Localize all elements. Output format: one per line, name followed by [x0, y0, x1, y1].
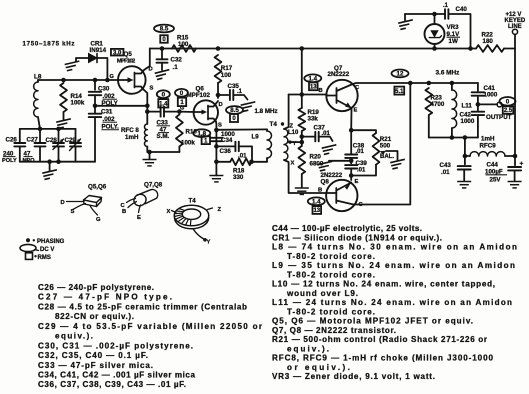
capacitor C42 — [472, 111, 485, 113]
svg-text:C44 — 100-µF electrolytic, 25: C44 — 100-µF electrolytic, 25 volts. — [272, 224, 422, 233]
svg-text:822-CN or equiv.).: 822-CN or equiv.). — [55, 312, 134, 321]
svg-text:.01: .01 — [322, 131, 331, 137]
node junction RFC9 riser — [463, 135, 468, 140]
svg-text:0: 0 — [162, 91, 166, 98]
svg-text:C34, C41, C42 — .001 µF silver: C34, C41, C42 — .001 µF silver mica — [38, 370, 195, 379]
RMS box 1 at Q6 gate — [178, 98, 186, 106]
svg-text:E: E — [137, 215, 141, 221]
svg-text:C29: C29 — [65, 137, 77, 144]
svg-text:180: 180 — [483, 38, 494, 45]
svg-text:C33 — 47-pF silver mica.: C33 — 47-pF silver mica. — [38, 361, 153, 370]
svg-text:C36, C37, C38, C39, C43 — .01: C36, C37, C38, C39, C43 — .01 µF. — [38, 380, 186, 389]
wire to L9 top — [216, 128, 267, 130]
svg-text:8.5: 8.5 — [160, 26, 169, 33]
wire to R21 top — [351, 130, 376, 133]
svg-text:3.0: 3.0 — [113, 50, 122, 56]
svg-text:C40: C40 — [456, 6, 468, 13]
svg-text:C39: C39 — [356, 160, 368, 167]
svg-text:L11 — 24 turns No. 24 enam. wi: L11 — 24 turns No. 24 enam. wire on an A… — [272, 298, 512, 307]
node junction R14 top — [61, 78, 66, 83]
svg-text:wound over L9.: wound over L9. — [286, 289, 358, 298]
resistor R14 — [60, 83, 67, 112]
RMS box 1.4 at Q5 source — [158, 99, 168, 107]
svg-text:BAL.: BAL. — [380, 154, 394, 160]
ground below C32 — [155, 70, 171, 80]
svg-text:E: E — [355, 179, 359, 185]
RMS box 3.0 at Q5 gate — [111, 49, 124, 56]
svg-text:B: B — [318, 188, 322, 194]
node junction RFC9 / C43 — [463, 154, 468, 159]
svg-text:C28: C28 — [46, 137, 58, 144]
wire L10 bottom (X) to Q8 base — [284, 160, 326, 193]
node junction output tap — [476, 102, 481, 107]
JFET Q5 — [118, 66, 146, 94]
wire output tap to terminal — [478, 103, 497, 105]
wire Q8 collector to output bus riser — [354, 83, 411, 205]
svg-text:0: 0 — [506, 98, 510, 105]
svg-text:1.4: 1.4 — [308, 75, 317, 82]
capacitor C41 — [477, 83, 479, 91]
svg-text:POLY: POLY — [2, 158, 17, 164]
node junction source / C33 / RFC8 — [145, 109, 150, 114]
node junction C28 bottom rail — [56, 159, 61, 164]
svg-text:C31: C31 — [101, 109, 113, 116]
wire Q7 emitter down — [350, 108, 352, 130]
svg-text:IN914: IN914 — [90, 47, 107, 54]
svg-text:100: 100 — [221, 72, 232, 79]
legend: oval = DC volts — [20, 244, 36, 251]
oval 8.5 DC at Q6 drain — [226, 106, 243, 114]
svg-text:L10: L10 — [288, 130, 299, 136]
svg-text:T4: T4 — [270, 121, 278, 128]
node junction L11 top — [450, 81, 455, 86]
node junction R18 right / L9 bottom — [249, 160, 254, 165]
svg-text:1.8 MHz: 1.8 MHz — [255, 108, 278, 115]
svg-text:500: 500 — [380, 142, 391, 149]
oval 8.5 DC volts at rail — [154, 25, 174, 33]
svg-text:VR3 — Zener diode, 9.1 volt, 1: VR3 — Zener diode, 9.1 volt, 1 watt. — [272, 372, 435, 381]
ground below R20 — [295, 188, 309, 194]
node junction C40 right at rail — [468, 46, 473, 51]
svg-text:1750–1875 kHz: 1750–1875 kHz — [23, 41, 75, 48]
svg-text:1W: 1W — [449, 38, 458, 45]
capacitor C32 — [157, 58, 168, 60]
zener diode VR3 — [434, 14, 436, 24]
ground below RFC8 — [143, 160, 157, 166]
node junction C28 at top rail — [56, 127, 61, 132]
svg-text:Q5: Q5 — [124, 51, 133, 58]
node junction Y tap — [300, 140, 305, 145]
svg-text:C30, C31 — .002-µF polystyrene: C30, C31 — .002-µF polystyrene. — [38, 341, 193, 350]
node junction base wire crossing — [300, 92, 305, 97]
capacitor C35 — [218, 94, 229, 96]
legend: square = RMS volts — [26, 253, 33, 260]
node junction Q8 riser — [408, 81, 413, 86]
svg-text:C32: C32 — [171, 57, 183, 64]
svg-text:G: G — [96, 217, 101, 223]
svg-text:Z: Z — [218, 207, 222, 213]
RMS box 5.1 at collector bus — [394, 87, 404, 95]
capacitor C26 — [19, 129, 21, 143]
svg-text:equiv.).: equiv.). — [287, 344, 329, 353]
svg-text:33k: 33k — [308, 115, 319, 122]
wire bank ground riser — [49, 162, 51, 171]
svg-text:VR3: VR3 — [447, 24, 460, 31]
inductor L8 — [37, 80, 39, 82]
node junction Q8 emitter — [349, 173, 354, 178]
wire C33 to Q6 gate — [179, 111, 194, 113]
RMS box 13 at Q7 base — [309, 82, 318, 90]
wire Y tap to divider — [289, 141, 302, 143]
wire CR1 cathode to gate node — [97, 58, 107, 80]
transistor Q7 — [326, 80, 357, 111]
RMS box 13 at Q8 base — [313, 206, 322, 214]
node junction R16 top — [177, 109, 182, 114]
node junction C30 top — [93, 78, 98, 83]
ground below C43 — [457, 182, 471, 188]
resistor R20 — [298, 146, 305, 174]
wire tuning bank top rail — [20, 128, 76, 130]
oval 1.4 DC at Q8 base — [308, 197, 325, 205]
svg-text:C26 — 240-pF polystyrene.: C26 — 240-pF polystyrene. — [38, 283, 154, 292]
svg-text:1mH: 1mH — [125, 134, 139, 141]
svg-text:D: D — [219, 102, 223, 108]
node junction at rail — [300, 46, 305, 51]
svg-text:330: 330 — [233, 174, 244, 181]
+12V terminal — [512, 29, 517, 34]
svg-text:RMS: RMS — [38, 255, 51, 261]
node junction C36 tap — [214, 144, 219, 149]
resistor R17 — [215, 55, 222, 83]
wire R14 to ground — [63, 112, 65, 120]
wire C31 to bottom rail — [94, 117, 96, 162]
RMS box 2.5 at output — [503, 106, 514, 114]
wire L10 top (Z) to Q7 base line — [284, 95, 289, 130]
svg-text:CR1 — Silicon diode (1N914 or: CR1 — Silicon diode (1N914 or equiv.). — [272, 233, 442, 242]
svg-text:C27: C27 — [27, 137, 39, 144]
svg-text:Y: Y — [207, 240, 211, 246]
node junction R17 top — [216, 46, 221, 51]
svg-text:NPO: NPO — [23, 158, 36, 164]
svg-text:25V: 25V — [490, 176, 502, 183]
svg-text:Q5,Q6: Q5,Q6 — [88, 184, 107, 191]
resistor R18 — [216, 161, 230, 163]
svg-text:13: 13 — [313, 208, 320, 214]
svg-text:DC V: DC V — [40, 247, 54, 253]
ground below R14 — [56, 119, 72, 129]
node junction C32 — [160, 46, 165, 51]
svg-text:X: X — [291, 161, 295, 167]
svg-text:C36: C36 — [220, 148, 232, 155]
capacitor C36 — [216, 145, 235, 147]
wire midpoint to ground — [329, 160, 351, 162]
svg-text:equiv.).: equiv.). — [55, 332, 93, 341]
svg-text:T-80-2 toroid core.: T-80-2 toroid core. — [287, 270, 375, 279]
node junction VR3 bottom at rail — [432, 46, 437, 51]
wire main oscillator node (gate bus) — [38, 79, 118, 81]
svg-text:8.5: 8.5 — [230, 107, 239, 114]
ground left of C40 — [404, 14, 406, 21]
ground below C44 — [508, 182, 522, 188]
capacitor C44 electrolytic — [514, 156, 516, 165]
svg-text:.1: .1 — [237, 89, 243, 95]
oval 0 DC at output — [500, 97, 516, 106]
node junction VR3 top — [432, 12, 437, 17]
svg-text:2N2222: 2N2222 — [328, 71, 350, 78]
capacitor C30 — [94, 80, 96, 90]
wire CR1 branch from ground — [76, 58, 89, 62]
resistor R23 — [425, 88, 432, 115]
output terminal — [497, 102, 502, 107]
svg-text:+: + — [520, 161, 524, 168]
wire R20 to ground — [301, 174, 303, 187]
svg-text:100: 100 — [178, 41, 189, 48]
svg-text:B: B — [319, 88, 323, 94]
node junction L9 top tap — [214, 128, 219, 133]
wire R21 bottom to Q8 emitter — [351, 165, 376, 176]
capacitor C34 series — [210, 137, 222, 139]
svg-text:.1: .1 — [173, 64, 179, 71]
svg-text:C30: C30 — [98, 86, 110, 93]
capacitor C27 — [39, 129, 41, 143]
svg-text:C44: C44 — [487, 161, 499, 168]
wire Q5 source down — [144, 90, 148, 112]
wire Q5 drain to supply rail — [144, 49, 150, 71]
svg-text:C34: C34 — [221, 137, 233, 144]
svg-text:1000: 1000 — [461, 118, 475, 125]
oval 1.8 DC at Q6 source — [193, 129, 210, 137]
oval 1.4 DC at Q7 base — [304, 74, 321, 82]
svg-text:C29 — 4 to 53.5-pF variable (M: C29 — 4 to 53.5-pF variable (Millen 2205… — [38, 322, 263, 331]
svg-text:.01: .01 — [356, 149, 365, 155]
wire +12V line down — [514, 35, 516, 157]
diode CR1 symbol — [89, 54, 98, 63]
svg-text:5.1: 5.1 — [395, 89, 404, 95]
wire C30-C31 midpoint — [94, 95, 96, 113]
svg-text:E: E — [354, 108, 358, 114]
svg-text:12: 12 — [397, 71, 404, 78]
wire R22 to +12V line — [504, 48, 515, 50]
svg-text:Z: Z — [290, 124, 294, 130]
ground below tuning bank — [42, 170, 58, 180]
node junction emitter / R21 top — [349, 128, 354, 133]
svg-text:Q7, Q8 — 2N2222 transistor.: Q7, Q8 — 2N2222 transistor. — [272, 326, 396, 335]
svg-text:1.4: 1.4 — [312, 198, 321, 205]
wire Q7 base — [289, 94, 327, 96]
node junction R18 left — [214, 160, 219, 165]
svg-text:Q7,Q8: Q7,Q8 — [144, 182, 163, 189]
svg-text:X: X — [167, 209, 171, 215]
svg-text:B: B — [122, 209, 126, 215]
capacitor C38 — [345, 154, 357, 156]
wire R17 to Q6 drain — [217, 83, 219, 98]
svg-text:MPF102: MPF102 — [187, 92, 211, 99]
svg-text:OUTPUT: OUTPUT — [486, 114, 512, 121]
resistor R16 — [176, 115, 183, 147]
capacitor C37 — [302, 136, 316, 138]
svg-text:RFC9: RFC9 — [480, 142, 497, 149]
ground at CR1 anode — [65, 61, 81, 71]
wire L8 bottom to tuning-cap rail — [38, 117, 40, 129]
svg-text:C28 — 4.5 to 25-pF ceramic tri: C28 — 4.5 to 25-pF ceramic trimmer (Cent… — [38, 302, 247, 311]
RMS box 0 at Q6 drain — [230, 114, 238, 122]
svg-text:RFC8, RFC9 — 1-mH rf choke (Mi: RFC8, RFC9 — 1-mH rf choke (Millen J300-… — [272, 354, 493, 363]
svg-text:MPF102: MPF102 — [117, 59, 136, 65]
svg-text:13: 13 — [310, 85, 317, 91]
capacitor C33 — [147, 111, 160, 113]
node junction C35 tap — [216, 93, 221, 98]
svg-text:0: 0 — [180, 90, 184, 97]
wire +9V supply rail — [150, 48, 471, 50]
svg-text:R21 — 500-ohm control (Radio S: R21 — 500-ohm control (Radio Shack 271-2… — [272, 335, 488, 344]
node junction R23 top — [427, 81, 432, 86]
ground after C37 — [322, 145, 338, 155]
svg-text:.01: .01 — [357, 167, 366, 173]
svg-text:D: D — [61, 200, 65, 206]
svg-text:.1: .1 — [443, 3, 449, 9]
wire riser to RFC9 node — [464, 138, 466, 157]
capacitor C39 — [345, 164, 357, 166]
svg-text:Q5, Q6 — Motorola MPF102 JFET: Q5, Q6 — Motorola MPF102 JFET or equiv. — [272, 317, 473, 326]
JFET Q6 — [194, 100, 218, 124]
transistor Q8 — [326, 180, 357, 211]
svg-text:C32, C35, C40 — 0.1 µF.: C32, C35, C40 — 0.1 µF. — [38, 351, 148, 360]
svg-text:S.M.: S.M. — [157, 133, 170, 140]
node junction C37 tap — [301, 131, 303, 146]
node junction at +12V line — [513, 154, 518, 159]
ground after C35 — [241, 102, 257, 112]
wire Q6 drain up — [216, 101, 218, 104]
rf choke RFC9 — [470, 152, 505, 156]
svg-text:L8 — 74 turns No. 30 enam. wir: L8 — 74 turns No. 30 enam. wire on an Am… — [272, 243, 517, 252]
wire RFC8/R16 common to ground — [146, 147, 148, 153]
svg-text:100k: 100k — [71, 100, 85, 107]
node junction L11 bottom — [450, 135, 455, 140]
svg-text:100k: 100k — [181, 140, 195, 147]
wire collector output bus — [353, 83, 478, 84]
trimmer capacitor C28 — [58, 129, 60, 143]
svg-text:L10 — 12 turns No. 24 enam. wi: L10 — 12 turns No. 24 enam. wire, center… — [272, 280, 495, 289]
zener VR3 top wire with C40 — [405, 13, 445, 15]
svg-text:T-80-2 toroid core.: T-80-2 toroid core. — [287, 307, 375, 316]
svg-text:L11: L11 — [462, 103, 473, 110]
capacitor C40 — [444, 9, 446, 19]
svg-text:3.6 MHz: 3.6 MHz — [436, 70, 460, 77]
resistor R19 — [298, 108, 305, 131]
capacitor C31 — [89, 113, 102, 115]
R21 wiper arm BAL. — [380, 151, 386, 155]
svg-text:C26: C26 — [6, 137, 18, 144]
svg-text:PHASING: PHASING — [37, 239, 65, 245]
ground at C38/C39 midpoint — [318, 161, 334, 171]
svg-text:G: G — [180, 106, 184, 112]
wire tank bottom rail — [429, 137, 478, 139]
wire tuning bank bottom rail — [20, 161, 95, 163]
svg-text:S: S — [71, 209, 75, 215]
inductor L11 — [451, 83, 453, 90]
phasing dot and Y centre tap — [288, 140, 291, 143]
wire RFC9 right to +12V line — [505, 155, 515, 157]
resistor R15 — [172, 45, 196, 52]
svg-text:S: S — [218, 123, 222, 129]
capacitor C43 — [464, 156, 466, 164]
svg-text:L9 — 35 turns No. 24 enam. wir: L9 — 35 turns No. 24 enam. wire on an Am… — [272, 261, 515, 270]
resistor R21 — [373, 133, 380, 165]
svg-text:L9: L9 — [252, 134, 260, 141]
svg-text:.01: .01 — [441, 169, 450, 176]
oval 0 DC at Q5 source — [157, 90, 170, 98]
svg-text:1000: 1000 — [484, 91, 498, 98]
node junction L8 at top rail — [38, 127, 43, 132]
RMS box 1 at Q6 source — [202, 136, 210, 144]
rf choke RFC8 — [146, 112, 148, 124]
node junction CR1 cathode riser — [105, 78, 110, 83]
svg-text:G: G — [110, 74, 114, 80]
svg-text:T4: T4 — [189, 198, 197, 205]
oval 12 DC at collector bus — [392, 70, 409, 78]
svg-text:4700: 4700 — [431, 101, 445, 108]
svg-text:Q8: Q8 — [321, 178, 330, 185]
RMS box 0 at rail — [160, 35, 168, 43]
inductor L9 — [266, 129, 268, 131]
ground below Q6 source chain — [215, 174, 217, 177]
svg-text:S: S — [150, 86, 154, 92]
variable capacitor C29 — [75, 129, 77, 143]
node junction ground riser bottom rail — [47, 159, 52, 164]
wire midpoint to Q5 source node — [95, 105, 147, 107]
oval 0 DC at Q6 gate — [175, 89, 188, 97]
svg-text:T-80-2 toroid core.: T-80-2 toroid core. — [287, 252, 375, 261]
ground at R21 wiper — [390, 159, 406, 169]
wire bias divider from rail — [301, 49, 303, 109]
wire Q6 source down — [215, 122, 217, 176]
legend: phasing dot — [26, 238, 30, 242]
node junction C38/C39 midpoint — [350, 158, 352, 164]
resistor R22 — [471, 48, 477, 50]
